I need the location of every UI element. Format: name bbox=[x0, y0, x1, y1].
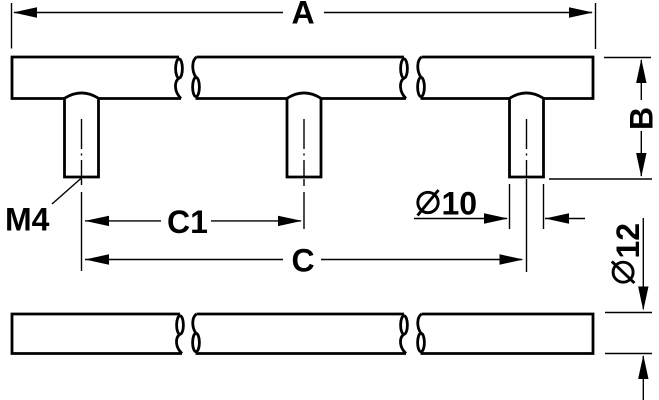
dimension C1 arrow left bbox=[85, 216, 109, 226]
C extension line (right post center) bbox=[526, 179, 528, 272]
diameter 10 leader right bbox=[545, 218, 585, 220]
svg-text:C1: C1 bbox=[167, 204, 208, 240]
diameter 10 symbol bbox=[418, 190, 439, 216]
diameter 12 arrow down bbox=[638, 287, 648, 311]
post 1 (left stem) bbox=[65, 93, 99, 177]
svg-text:A: A bbox=[292, 0, 315, 31]
dimension C arrow left bbox=[85, 254, 109, 264]
C1 extension line (middle post center) bbox=[303, 179, 305, 229]
diameter 12 arrow up bbox=[638, 355, 648, 379]
svg-text:B: B bbox=[624, 107, 659, 130]
bottom bar segment 1 (side view left) bbox=[12, 314, 183, 354]
dimension A arrow right bbox=[569, 7, 593, 17]
dimension A arrow left bbox=[13, 7, 37, 17]
diameter 10 leader left bbox=[414, 218, 507, 220]
dimension C arrow right bbox=[500, 254, 524, 264]
bar segment 1 (top view, left) bbox=[12, 57, 182, 99]
svg-text:12: 12 bbox=[610, 223, 646, 259]
bottom bar segment 3 (side view right) bbox=[418, 314, 593, 354]
diameter 12 dimension line upper bbox=[642, 218, 644, 309]
diameter 12 tick bottom bbox=[605, 353, 652, 355]
diameter 12 label group (rotated) bbox=[610, 223, 646, 283]
dimension B arrow up bbox=[636, 59, 646, 83]
post 3 centerline bbox=[526, 119, 528, 178]
dimension A extension line right bbox=[595, 3, 597, 49]
svg-text:M4: M4 bbox=[5, 202, 50, 238]
post 2 centerline bbox=[303, 119, 305, 178]
dimension B line bbox=[640, 60, 642, 176]
svg-text:C: C bbox=[292, 243, 315, 279]
bar segment 2 (top view, middle) bbox=[193, 57, 408, 99]
post 3 (right stem) bbox=[510, 93, 544, 177]
dimension B tick top bbox=[604, 57, 651, 59]
diameter 10 extension line right bbox=[543, 184, 545, 229]
dimension C1 arrow right bbox=[278, 216, 302, 226]
dimension B arrow down bbox=[636, 153, 646, 177]
M4 leader line bbox=[52, 178, 82, 205]
svg-text:10: 10 bbox=[442, 186, 478, 222]
diameter 12 dimension line lower bbox=[642, 356, 644, 400]
diameter 10 arrow left-pointing bbox=[545, 213, 569, 223]
diameter 12 tick top bbox=[605, 312, 652, 314]
diameter 10 extension line left bbox=[509, 184, 511, 229]
bottom bar segment 2 (side view middle) bbox=[193, 314, 408, 354]
C1 extension line (left post center) bbox=[81, 179, 83, 271]
diameter 12 symbol bbox=[613, 262, 633, 282]
dimension C line bbox=[85, 259, 522, 261]
dimension C1 line bbox=[85, 220, 301, 222]
bar segment 3 (top view, right) bbox=[418, 57, 593, 99]
post 2 (middle stem) bbox=[287, 93, 321, 177]
dimension A line bbox=[14, 12, 592, 14]
dimension A extension line left bbox=[11, 3, 13, 49]
dimension B tick bottom bbox=[549, 178, 652, 180]
post 1 centerline bbox=[81, 119, 83, 178]
diameter 10 arrow right-pointing bbox=[484, 213, 508, 223]
